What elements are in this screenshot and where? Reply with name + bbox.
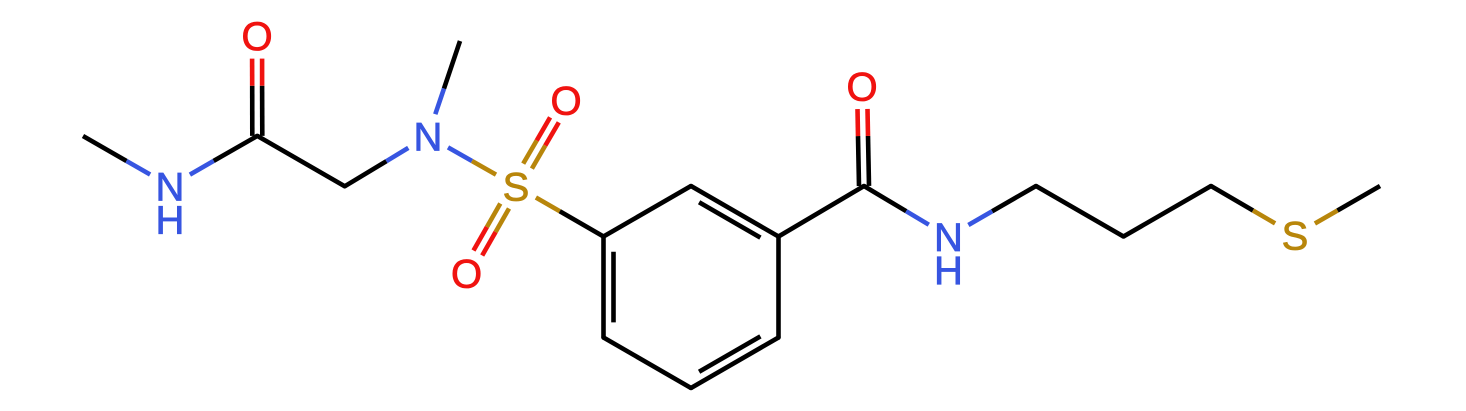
benzene edge B2-B3 (double) — [691, 186, 779, 238]
double bond S=O upper — [523, 117, 559, 168]
bond CH2-CH2 chain2 — [1124, 186, 1212, 237]
svg-text:O: O — [241, 15, 272, 59]
benzene edge B6-B1 (double) — [604, 237, 614, 338]
bond CH2-S thioether — [1211, 186, 1275, 223]
bond CH3-N amide1 — [83, 136, 150, 175]
bond CH2-CH2 chain — [1036, 186, 1124, 237]
svg-text:S: S — [1282, 214, 1309, 258]
bond N-S — [448, 147, 496, 174]
bond C-N amide2 — [864, 186, 929, 225]
bond CH2-N sulfonamide — [345, 148, 409, 186]
double bond C=O amide1 — [252, 59, 262, 136]
bond C-CH2 — [257, 136, 344, 186]
benzene edge B3-B4 — [776, 237, 781, 338]
bond S-phenyl — [536, 198, 604, 237]
double bond C=O amide2 — [858, 109, 870, 186]
svg-text:O: O — [846, 65, 877, 109]
svg-text:S: S — [503, 165, 530, 209]
benzene edge B4-B5 (double) — [691, 336, 779, 388]
svg-text:H: H — [156, 198, 185, 242]
bond S-CH3 thioether — [1315, 186, 1380, 224]
benzene edge B5-B6 — [604, 338, 692, 389]
svg-text:O: O — [451, 252, 482, 296]
benzene edge B1-B2 — [604, 186, 692, 237]
bond phenyl-C carbonyl2 — [779, 186, 865, 237]
double bond S=O lower — [474, 204, 510, 256]
bond N-CH2 chain — [968, 186, 1036, 225]
svg-text:H: H — [934, 249, 963, 293]
svg-text:O: O — [550, 79, 581, 123]
svg-text:N: N — [414, 115, 443, 159]
junction (vertex) fillers — [255, 134, 1213, 391]
bond N-C carbonyl1 — [190, 136, 257, 175]
bond N-CH3 sulfonamide — [435, 41, 460, 114]
